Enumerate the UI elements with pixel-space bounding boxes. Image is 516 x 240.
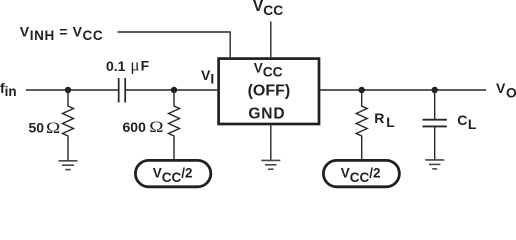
wire box bottom to ground [270,124,272,160]
svg-text:RL: RL [374,110,394,130]
wire input to coupling cap [26,89,118,91]
svg-text:F: F [141,57,150,73]
capacitor C_L [434,90,436,119]
ground under 50 ohm [59,161,78,170]
voltage source VCC/2 right pill [323,160,399,186]
svg-text:VCC/2: VCC/2 [341,165,381,185]
svg-text:GND: GND [248,105,285,122]
svg-text:VINH = VCC: VINH = VCC [20,24,103,44]
node junction at R_L [359,87,365,93]
wire box output [320,89,486,91]
node junction at 600 ohm [171,87,177,93]
svg-text:Ω: Ω [46,118,60,136]
svg-text:CL: CL [457,112,476,132]
svg-text:VI: VI [201,67,214,86]
svg-text:Ω: Ω [149,118,163,136]
svg-text:VO: VO [496,80,516,100]
svg-text:fin: fin [0,80,17,99]
wire cap to box [126,89,217,91]
svg-text:0.1: 0.1 [106,58,126,74]
wire V_CC to box top [270,22,272,58]
resistor R 600 ohm [169,90,180,160]
capacitor 0.1 uF [119,78,126,103]
svg-text:VCC/2: VCC/2 [153,165,193,185]
svg-text:600: 600 [123,119,147,135]
svg-text:(OFF): (OFF) [248,83,291,100]
node junction at C_L [432,87,438,93]
svg-text:VCC: VCC [254,60,283,79]
svg-text:μ: μ [130,55,139,74]
ground under C_L [425,160,444,169]
node junction at 50 ohm [65,87,71,93]
ground under box [261,160,280,169]
voltage source VCC/2 left pill [135,160,210,186]
resistor R_L [356,90,367,160]
svg-text:50: 50 [29,120,45,136]
IC box U1 [219,59,319,124]
wire V_INH to box top [118,32,231,57]
svg-text:VCC: VCC [253,0,283,18]
resistor R 50 ohm [63,90,74,160]
